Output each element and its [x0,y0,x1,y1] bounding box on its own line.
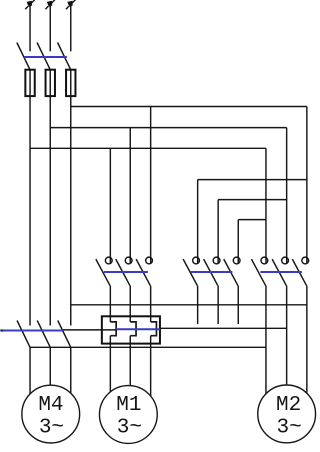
trip link inside overload [116,328,160,330]
motor M1 circle [99,386,157,444]
wire L3 incoming [70,3,72,51]
wire K1 pole 2 to overload [129,286,131,322]
wire bus 2 (from L2) [50,127,286,129]
svg-text:M4: M4 [38,394,63,417]
wire overload output 1 to motor M1 [109,336,111,415]
switch Q1 pole 3 blade [58,43,71,70]
svg-text:3~: 3~ [277,417,302,440]
wire bus2 drop to K3 pole2 [286,128,288,264]
contactor K2 linkage [191,271,233,273]
contactor K2 pole 3 contact [224,257,240,286]
wire K3 pole 3 to motor M2 [306,286,308,415]
wire K3 pole 1 to motor M2 [265,286,267,415]
wire overload output 2 to motor M1 [129,336,131,415]
wire bus 3 (from L1) [30,147,266,149]
switch Q2 pole 3 blade [58,321,71,348]
svg-text:M1: M1 [116,394,141,417]
overload relay F4 heater 3 [151,322,157,336]
wire phase L3 drop [70,70,72,326]
motor M2 circle [258,385,316,443]
contactor K2 pole 2 contact [204,257,220,286]
svg-text:3~: 3~ [117,417,142,440]
fuse F2 [46,70,55,96]
wire Q2 pole 2 to motor M4 [49,347,51,414]
supply arrow L2 [45,0,54,9]
wire tap bus1 to K1 pole3 [150,107,152,264]
wire tap bus2 to K1 pole2 [129,128,131,264]
contactor K3 pole 2 contact [272,257,288,286]
wire K2 pole 1 bottom [197,286,199,324]
overload relay F4 box [102,316,160,343]
wire bus3 drop to K3 pole1 [265,148,267,263]
switch Q2 linkage [2,330,63,332]
wire K1 pole 3 to overload [150,286,152,322]
wire tap bus3 to K1 pole1 [109,148,111,263]
switch Q2 pole 2 blade [37,321,50,348]
wire K2 pole 2 bottom [217,286,219,324]
switch Q1 linkage [24,56,67,58]
fuse F1 [25,70,34,96]
wire bus 1 (from L3) [71,106,307,108]
wire L2 incoming [49,3,51,51]
wire bus1 drop to K3 pole3 [306,107,308,264]
motor M4 circle [22,385,80,443]
wire K2 pole1 top [197,180,199,264]
wire K2 pole3 top [237,220,239,264]
wire phase L1 drop [29,70,31,326]
wire rail overload to M2 lead 2 [160,327,287,329]
wire crossover to K2 pole1 [198,179,307,181]
wire phase L2 drop [49,70,51,326]
svg-text:M2: M2 [276,394,301,417]
supply arrow L1 [25,0,34,9]
motor M4 label [38,394,64,440]
contactor K3 pole 1 contact [251,257,267,286]
supply arrow L3 [66,0,75,9]
wire K2 pole2 top [217,200,219,264]
contactor K1 pole 3 contact [136,257,152,286]
wire Q2 pole 1 to motor M4 [29,347,31,414]
switch Q1 pole 1 blade [17,43,30,70]
trip link Q2 to overload [63,329,116,331]
contactor K1 linkage [104,271,148,273]
wire crossover to K2 pole2 [218,199,286,201]
wire K1 pole 1 to overload [109,286,111,322]
switch Q2 pole 1 blade [17,321,30,348]
overload relay F4 heater 1 [110,322,116,336]
wire rail L3 to M2 lead 3 [71,304,307,306]
contactor K3 linkage [260,271,302,273]
fuse F3 [66,70,75,96]
svg-text:3~: 3~ [39,417,64,440]
contactor K2 pole 1 contact [183,257,199,286]
wire K3 pole 2 to motor M2 [286,286,288,415]
wire crossover to K2 pole3 [238,219,266,221]
contactor K1 pole 2 contact [116,257,132,286]
wire overload output 3 to motor M1 [150,336,152,415]
contactor K3 pole 3 contact [292,257,308,286]
overload relay F4 heater 2 [130,322,136,336]
switch Q1 pole 2 blade [37,43,50,70]
wire K2 pole 3 bottom [237,286,239,324]
wire rail M4 lead 1 to M2 lead 1 [30,346,266,348]
wire Q2 pole 3 to motor M4 [70,347,72,414]
switch Q2 handle tick [0,329,4,331]
motor M2 label [276,394,302,440]
contactor K1 pole 1 contact [96,257,112,286]
wire L1 incoming [29,3,31,51]
motor M1 label [116,394,142,440]
